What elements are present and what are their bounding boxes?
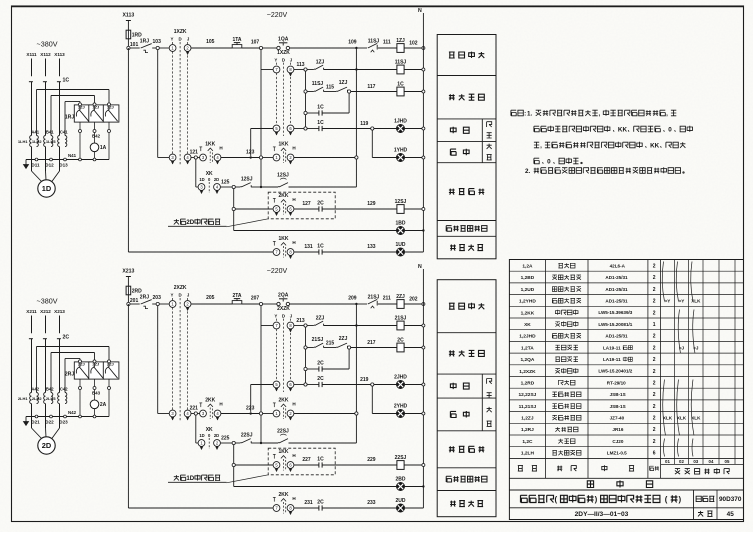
svg-text:>Y: >Y [665, 299, 671, 304]
wire [294, 69, 304, 71]
svg-text:2ZJ: 2ZJ [316, 315, 325, 321]
svg-text:2: 2 [653, 416, 656, 422]
svg-text:XK: XK [524, 322, 531, 328]
selector switch 1XZK contacts 5-6 [273, 125, 280, 132]
svg-text:2: 2 [653, 369, 656, 375]
svg-text:1,2UD: 1,2UD [521, 287, 535, 293]
table column line c2 [587, 260, 589, 479]
svg-text:KK: KK [618, 126, 628, 133]
svg-text:2DY—II/3—01~03: 2DY—II/3—01~03 [575, 511, 629, 518]
svg-text:2TA: 2TA [232, 293, 241, 299]
selector switch 2XZK contacts 3-4 [169, 410, 176, 417]
wire [348, 93, 350, 113]
svg-text:01: 01 [665, 459, 670, 464]
wire [405, 251, 424, 253]
svg-text:207: 207 [251, 296, 260, 302]
table row line [509, 422, 743, 424]
svg-text:D: D [282, 58, 285, 63]
junction rail r9 [422, 229, 424, 231]
label 事故自投 [449, 446, 455, 452]
svg-text:2ZJ: 2ZJ [339, 336, 348, 342]
svg-text:129: 129 [367, 201, 376, 207]
contactor auxiliary contact 2C NO [318, 505, 320, 510]
label 事故信号 [450, 245, 456, 251]
label 自投电源监视 [446, 476, 451, 482]
table header 特号 [518, 466, 523, 472]
svg-text:1LH3: 1LH3 [46, 139, 57, 144]
table row line [509, 294, 743, 296]
svg-text:2QA: 2QA [278, 293, 289, 299]
indicator lamp 2BD [396, 482, 404, 490]
node rail r5 [422, 127, 425, 130]
coil 22SJ [397, 461, 404, 470]
svg-text:221: 221 [190, 405, 199, 411]
wire [128, 507, 273, 509]
wire [127, 48, 129, 252]
label 自投电源监视 [446, 226, 451, 232]
wire [127, 39, 129, 48]
note from 2D control circuit [174, 219, 179, 224]
svg-text:): ) [679, 495, 682, 504]
wire [221, 157, 260, 159]
node rail r6 [422, 412, 425, 415]
svg-text:XLK: XLK [663, 416, 673, 421]
svg-text:203: 203 [153, 295, 162, 301]
svg-text:2RJ: 2RJ [140, 294, 149, 300]
wire [294, 128, 304, 130]
table row line [509, 446, 743, 448]
wire [307, 128, 319, 130]
bus N4 wire [26, 159, 109, 161]
svg-text:2ZJ: 2ZJ [92, 362, 99, 367]
wire [261, 325, 273, 327]
svg-text:202: 202 [409, 297, 418, 303]
svg-text:1KK: 1KK [278, 236, 288, 242]
phase line upper [45, 59, 47, 77]
svg-text:205: 205 [206, 295, 215, 301]
wire [242, 303, 260, 305]
coil 2ZJ [397, 300, 404, 309]
phase line lower [31, 82, 33, 136]
svg-text:127: 127 [302, 201, 311, 207]
svg-text:107: 107 [251, 40, 260, 46]
title 图集号 [696, 496, 701, 501]
phase line upper [45, 316, 47, 334]
svg-text:12,22SJ: 12,22SJ [518, 392, 536, 398]
node rail r1 [422, 303, 425, 306]
svg-text:45: 45 [727, 511, 735, 518]
thermal relay contact 1RJ [141, 44, 152, 48]
wire [251, 442, 261, 444]
svg-text:D: D [179, 293, 182, 298]
wire [348, 349, 350, 369]
svg-text:Y: Y [274, 314, 277, 319]
svg-text:2C: 2C [397, 338, 404, 344]
wire [378, 47, 397, 49]
table row line [509, 364, 743, 366]
node [348, 346, 351, 349]
svg-text:90D370: 90D370 [719, 496, 742, 503]
wire [374, 384, 396, 386]
svg-text:2: 2 [653, 439, 656, 445]
svg-text:AD1-25/31: AD1-25/31 [605, 334, 628, 339]
label 远方 [450, 411, 456, 417]
svg-text:1XZK: 1XZK [174, 29, 187, 35]
phase line lower [45, 82, 47, 136]
svg-text:102: 102 [409, 41, 418, 47]
table column line c3 [647, 260, 649, 479]
svg-text:JSB-1S: JSB-1S [610, 392, 626, 397]
contactor 2C main contact [29, 338, 33, 340]
current transformer 1LH2 [44, 136, 46, 147]
table header 数量 [650, 466, 654, 470]
wire [235, 442, 240, 444]
svg-text:123: 123 [246, 149, 255, 155]
svg-text:11,21SJ: 11,21SJ [519, 404, 537, 410]
CT secondary wiring loops [36, 347, 38, 393]
node rail r8 [422, 464, 425, 467]
svg-text:1KK: 1KK [278, 141, 288, 147]
svg-text:1KK: 1KK [278, 449, 288, 455]
thermal relay 1RJ element 1 [74, 105, 90, 122]
thermal relay 1RJ element 2 [89, 105, 105, 122]
wire [324, 91, 337, 93]
svg-text:2D: 2D [214, 177, 219, 182]
wire [235, 208, 273, 210]
svg-text:231: 231 [304, 500, 313, 506]
scheme column line [718, 260, 720, 465]
wire [404, 208, 423, 210]
svg-text:1,2KK: 1,2KK [521, 310, 535, 316]
svg-text:11SJ: 11SJ [312, 81, 324, 87]
label 就地 [450, 127, 456, 134]
motor 2D [38, 437, 55, 454]
svg-text:12SJ: 12SJ [277, 173, 289, 179]
svg-text::: : [524, 110, 526, 117]
svg-text:2LH1: 2LH1 [18, 396, 29, 401]
svg-text:201: 201 [130, 298, 139, 304]
svg-text:B42: B42 [46, 387, 54, 392]
svg-text:1C: 1C [317, 105, 324, 111]
svg-text:Y: Y [171, 293, 174, 298]
svg-text:X211: X211 [26, 309, 37, 314]
wire [261, 186, 278, 188]
thermal relay 2RJ element 3 [103, 362, 119, 379]
contactor auxiliary contact 2C NO [318, 366, 320, 371]
table row line [509, 340, 743, 342]
svg-text:2ZJ: 2ZJ [107, 362, 114, 367]
svg-text:2KK: 2KK [278, 193, 288, 199]
wire [355, 304, 357, 412]
fuse 2RD [126, 286, 131, 295]
svg-text:209: 209 [348, 296, 357, 302]
table row line [509, 434, 743, 436]
wire [251, 186, 261, 188]
svg-text:RT-29/10: RT-29/10 [607, 380, 626, 385]
svg-text:N42: N42 [68, 410, 77, 415]
svg-text:JR16: JR16 [612, 427, 623, 432]
wire [235, 464, 273, 466]
wire [127, 304, 129, 508]
wire [260, 415, 262, 443]
wire [159, 303, 169, 305]
table row line [509, 270, 743, 272]
contactor auxiliary contact 1C NO [318, 126, 320, 131]
wire [195, 159, 197, 187]
svg-text:1QA: 1QA [278, 37, 289, 43]
svg-text:2KK: 2KK [278, 397, 288, 403]
wire [324, 347, 337, 349]
wire [294, 208, 319, 210]
junction rail r9 [422, 485, 424, 487]
wire [378, 303, 397, 305]
svg-text:2LH2: 2LH2 [32, 396, 43, 401]
scheme column line [702, 260, 704, 465]
equipment table frame [509, 260, 743, 520]
wire [260, 159, 262, 187]
svg-text:225: 225 [221, 435, 230, 441]
phase line upper [31, 316, 33, 334]
svg-text:A42: A42 [31, 387, 39, 392]
svg-text:1RJ: 1RJ [65, 115, 75, 121]
wire [191, 413, 194, 415]
svg-text:B42: B42 [92, 134, 101, 139]
wire [307, 69, 314, 71]
svg-text:11SJ: 11SJ [395, 60, 407, 66]
scheme column line [674, 260, 676, 465]
wire [294, 507, 319, 509]
svg-text:2ZJ: 2ZJ [78, 362, 85, 367]
svg-text:1,2LH: 1,2LH [521, 451, 535, 457]
svg-text:1ZJ: 1ZJ [396, 38, 405, 44]
wire [128, 251, 273, 253]
wire [356, 69, 397, 71]
svg-text:1D: 1D [199, 177, 204, 182]
table row line [509, 387, 743, 389]
wire [322, 251, 396, 253]
wire [404, 47, 423, 49]
wire [307, 91, 314, 93]
table row line [509, 376, 743, 378]
contactor auxiliary contact 1C NO [318, 462, 320, 467]
table row line [509, 305, 743, 307]
table row line [509, 282, 743, 284]
node [348, 90, 351, 93]
svg-text:12SJ: 12SJ [395, 199, 407, 205]
svg-text:2RD: 2RD [132, 288, 142, 294]
node rail r3 [422, 90, 425, 93]
svg-text:1,2C: 1,2C [522, 439, 533, 445]
svg-text:115: 115 [326, 84, 334, 90]
node rail r1 [422, 47, 425, 50]
svg-text:2: 2 [653, 275, 656, 281]
svg-text:D21: D21 [31, 420, 40, 425]
wire [157, 306, 159, 414]
node [232, 463, 235, 466]
svg-text:1D: 1D [42, 184, 52, 193]
contactor 1C main contact [57, 81, 61, 83]
stop pushbutton 1TA [232, 45, 242, 48]
svg-text:125: 125 [221, 179, 230, 185]
current transformer 1LH1 [30, 136, 32, 147]
wire [405, 507, 424, 509]
svg-text:2C: 2C [317, 201, 324, 207]
wire [152, 47, 156, 49]
wire [152, 303, 156, 305]
start pushbutton 1QA [277, 46, 280, 49]
svg-text:KK: KK [650, 142, 660, 149]
svg-text:0: 0 [547, 158, 551, 165]
svg-text:): ) [595, 495, 598, 504]
svg-text:227: 227 [302, 457, 311, 463]
svg-text:109: 109 [348, 40, 357, 46]
svg-text:D22: D22 [45, 420, 54, 425]
node rail r6 [422, 156, 425, 159]
svg-text:JSB-1S: JSB-1S [610, 404, 626, 409]
svg-text:X212: X212 [40, 309, 51, 314]
ground [25, 160, 27, 165]
contactor auxiliary contact 2C NO [318, 382, 320, 387]
svg-text:133: 133 [367, 244, 376, 250]
svg-text:22SJ: 22SJ [241, 433, 253, 439]
svg-text:2JHD: 2JHD [394, 375, 407, 381]
indicator lamp 1BD [396, 226, 404, 234]
svg-text:D13: D13 [59, 163, 68, 168]
wire [263, 47, 277, 49]
phase line upper [59, 59, 61, 77]
svg-text:2D: 2D [186, 219, 194, 226]
selector switch 1XZK contacts 3-4 [169, 154, 176, 161]
svg-text:Y: Y [274, 58, 277, 63]
wire [294, 325, 304, 327]
start pushbutton 2QA [277, 302, 280, 305]
svg-text:2A: 2A [100, 402, 107, 408]
svg-text:04: 04 [709, 459, 714, 464]
node rail r2 [422, 68, 425, 71]
title block vertical lines [693, 490, 695, 520]
coil 1C [397, 87, 404, 96]
node 223 [259, 412, 262, 415]
svg-text:AD1-25/31: AD1-25/31 [605, 275, 628, 280]
svg-text:1TA: 1TA [232, 37, 241, 43]
wire [221, 413, 260, 415]
table line between title rows [509, 507, 743, 509]
function label column frame [437, 280, 496, 517]
wire [405, 486, 424, 488]
motor leads [31, 404, 33, 428]
wire [130, 47, 140, 49]
svg-text:Y: Y [171, 37, 174, 42]
svg-text:1,2A: 1,2A [522, 264, 533, 270]
table column line c1 [544, 260, 546, 479]
svg-text:2KK: 2KK [278, 492, 288, 498]
fuse 1RD [126, 30, 131, 39]
coil 12SJ [397, 205, 404, 214]
svg-text:111: 111 [383, 39, 391, 45]
svg-text:~380V: ~380V [37, 297, 58, 306]
title 页号 [698, 511, 703, 517]
wire [127, 277, 129, 287]
svg-text:X113: X113 [54, 52, 65, 57]
CT secondary wiring loops [36, 90, 38, 136]
wire [290, 303, 357, 305]
node [304, 367, 307, 370]
phase line lower [31, 339, 33, 393]
coil 2C [397, 343, 404, 352]
wire [191, 303, 232, 305]
selector switch 2XZK contacts 5-6 [273, 381, 280, 388]
svg-text:2C: 2C [317, 361, 324, 367]
label 起动短接 [449, 303, 455, 309]
indicator lamp 2UD [396, 504, 404, 512]
phase line lower [45, 339, 47, 393]
wire [307, 368, 319, 370]
wire [260, 306, 262, 412]
wire [405, 128, 424, 130]
wire [351, 347, 397, 349]
table row line [509, 411, 743, 413]
svg-text:1,2QA: 1,2QA [520, 357, 534, 363]
node [355, 156, 358, 159]
current transformer 2LH2 [44, 393, 46, 404]
svg-text:CJ20: CJ20 [612, 439, 623, 444]
wire [305, 71, 307, 127]
svg-text:D11: D11 [31, 163, 40, 168]
svg-text:2: 2 [653, 334, 656, 340]
table header 安装地点方案 [675, 469, 680, 475]
svg-text:XLK: XLK [677, 416, 687, 421]
svg-text:11SJ: 11SJ [368, 38, 380, 44]
wire [127, 21, 129, 31]
svg-text:2D: 2D [42, 441, 52, 450]
contactor auxiliary contact 1C NO [318, 110, 320, 115]
svg-text:2: 2 [653, 357, 656, 363]
thermal relay 2RJ element 1 [74, 362, 90, 379]
svg-text:6: 6 [653, 451, 656, 457]
svg-text:131: 131 [304, 244, 313, 250]
svg-text:D: D [282, 314, 285, 319]
scheme column line [734, 260, 736, 465]
label 事故自投 [449, 189, 455, 195]
svg-text:~380V: ~380V [37, 40, 58, 49]
wire [305, 327, 307, 383]
svg-text:1ZJ: 1ZJ [92, 105, 99, 110]
svg-text:42L6-A: 42L6-A [610, 263, 626, 268]
table column line c4 [660, 260, 662, 479]
wire [351, 91, 397, 93]
svg-text:LMZ1-0.5: LMZ1-0.5 [607, 451, 627, 456]
motor 1D [38, 180, 55, 197]
wire [324, 69, 357, 71]
wire [263, 413, 274, 415]
wire [322, 208, 397, 210]
svg-text:2D: 2D [214, 433, 219, 438]
wire [404, 91, 423, 93]
wire [404, 325, 423, 327]
svg-text:1BD: 1BD [395, 221, 405, 227]
wire [290, 47, 357, 49]
wire [404, 464, 423, 466]
svg-text:LW5-15.39639/3: LW5-15.39639/3 [598, 310, 632, 315]
svg-text:1,2RD: 1,2RD [521, 381, 535, 387]
table line below 设备表 [509, 489, 743, 491]
wire [324, 325, 357, 327]
svg-text:D: D [179, 37, 182, 42]
current transformer 2LH3 [58, 393, 60, 404]
svg-text:233: 233 [367, 500, 376, 506]
indicator lamp 1JHD [396, 124, 404, 132]
node [304, 346, 307, 349]
